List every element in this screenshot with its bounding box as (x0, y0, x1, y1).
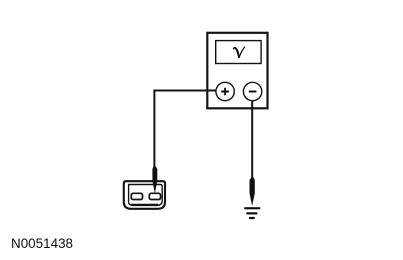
connector pin cavity A (131, 193, 142, 199)
ground symbol (244, 207, 260, 219)
connector J1 outer shell (124, 181, 165, 209)
test probe P1 (into connector) (152, 167, 157, 194)
test probe P2 (to ground) (250, 178, 255, 207)
part number label N0051438 (11, 235, 73, 251)
voltmeter display window (216, 41, 261, 64)
positive terminal (+) (216, 82, 234, 100)
voltmeter V label (233, 46, 245, 58)
wire from negative terminal (right vertical segment) (251, 95, 253, 180)
wire to connector (left vertical segment) (153, 90, 155, 169)
connector J1 inner face (129, 185, 163, 206)
voltmeter U1 body (207, 33, 267, 109)
wire from positive terminal (horizontal segment) (153, 90, 220, 92)
negative terminal (-) (243, 82, 261, 100)
connector pin cavity B (149, 193, 160, 199)
